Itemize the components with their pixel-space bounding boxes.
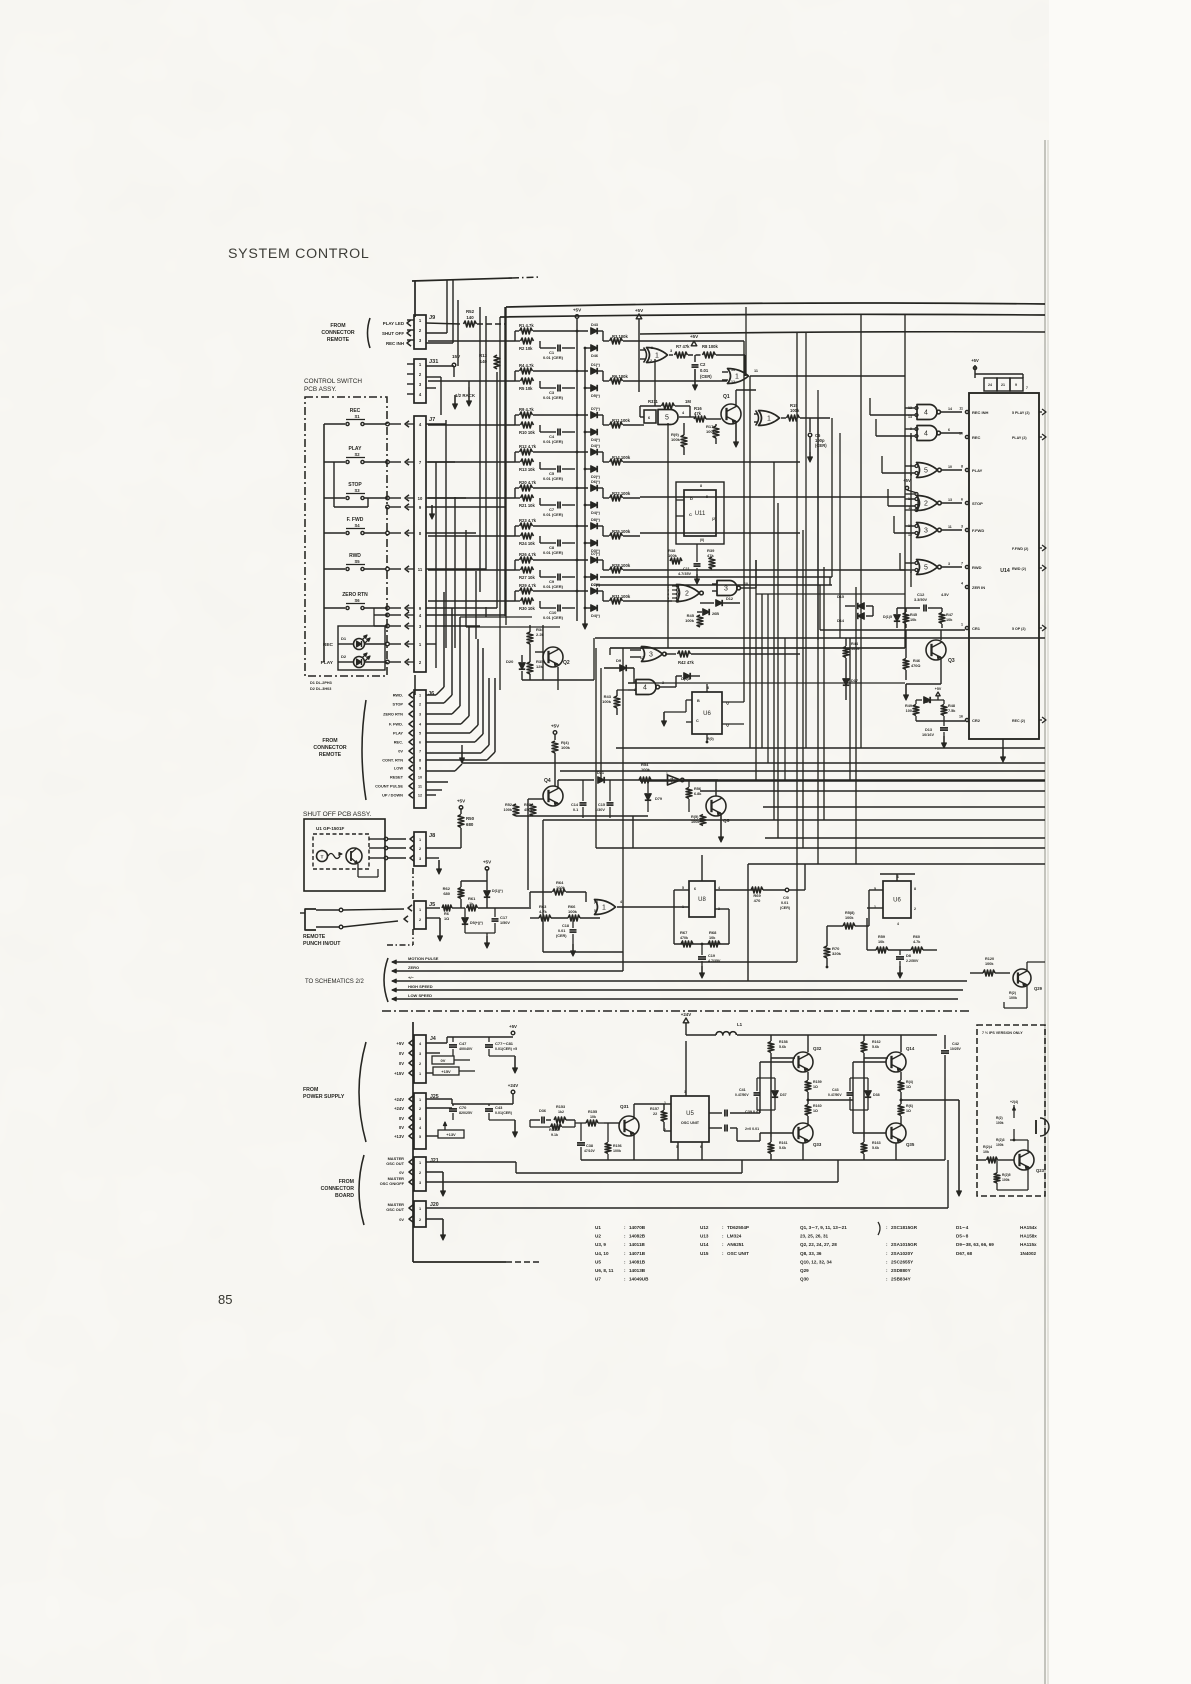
- svg-text:R(2): R(2): [1009, 991, 1017, 995]
- svg-text:ZERO RTN: ZERO RTN: [383, 712, 403, 717]
- svg-text:RESET: RESET: [390, 775, 404, 780]
- svg-text:D12: D12: [726, 597, 733, 601]
- cell right bracket: [602, 526, 604, 536]
- svg-text:C: C: [696, 719, 699, 723]
- arrow J25 down: [514, 1120, 516, 1136]
- svg-text:S2: S2: [354, 452, 360, 457]
- left long verticals mid: [499, 317, 501, 690]
- wire bus vertical: [435, 462, 437, 668]
- svg-text:10: 10: [418, 496, 423, 501]
- J6 lower pin stubs: [426, 781, 448, 783]
- svg-text:14071B: 14071B: [629, 1251, 646, 1256]
- svg-text:CR1: CR1: [972, 626, 981, 631]
- svg-text:1: 1: [655, 353, 659, 360]
- svg-text:23, 25, 26, 31: 23, 25, 26, 31: [800, 1234, 829, 1239]
- bus verticals right: [743, 341, 745, 702]
- svg-text:J7: J7: [429, 417, 435, 423]
- diode D4(*): [591, 605, 597, 611]
- svg-text:D37: D37: [780, 1093, 787, 1097]
- svg-text:1: 1: [735, 374, 739, 381]
- svg-text:10k: 10k: [983, 1150, 989, 1154]
- svg-text:R12 4.7k: R12 4.7k: [519, 444, 537, 449]
- U6 wires: [686, 699, 692, 701]
- svg-text:4.7/35V: 4.7/35V: [678, 572, 692, 576]
- svg-text:D9: D9: [616, 658, 622, 663]
- svg-text:3: 3: [419, 1181, 421, 1185]
- wire bus vertical: [445, 420, 447, 648]
- capacitor C20 0.01(CER): [785, 888, 789, 892]
- svg-text:(CER): (CER): [815, 443, 827, 448]
- gate out wire: [941, 502, 962, 504]
- svg-text:R5(8): R5(8): [845, 911, 855, 915]
- svg-text:D1 DL-2PH3: D1 DL-2PH3: [310, 681, 332, 685]
- U16 top loop: [869, 889, 883, 891]
- svg-text:R5 10k: R5 10k: [519, 386, 533, 391]
- svg-text:Q2, 22, 24, 27, 28: Q2, 22, 24, 27, 28: [800, 1242, 837, 1247]
- svg-text:Q29: Q29: [800, 1268, 809, 1273]
- svg-text:0V: 0V: [399, 1170, 404, 1175]
- svg-text:21: 21: [1001, 383, 1005, 387]
- svg-text:6: 6: [948, 428, 950, 432]
- wire J9 pin1 to R52: [426, 323, 460, 324]
- svg-text:R160: R160: [813, 1104, 822, 1108]
- svg-text:R2 10k: R2 10k: [519, 346, 533, 351]
- svg-text:1: 1: [419, 908, 421, 912]
- J5 net bottoms: [464, 908, 466, 917]
- svg-text:HA158x: HA158x: [1020, 1234, 1037, 1239]
- svg-text:140: 140: [466, 315, 474, 320]
- svg-text:10k: 10k: [910, 618, 917, 622]
- svg-text:R29 4.7k: R29 4.7k: [519, 583, 537, 588]
- pin U14 F.FWD: [965, 528, 968, 531]
- svg-text:6: 6: [694, 887, 696, 891]
- wire bus 864: [748, 863, 1045, 865]
- svg-text:5: 5: [665, 415, 669, 422]
- svg-text:D1: D1: [341, 636, 347, 641]
- svg-text:J31: J31: [429, 359, 438, 365]
- pin U14 STOP: [965, 501, 968, 504]
- diode D8(*): [533, 525, 588, 527]
- gate OR 1b: [728, 369, 749, 384]
- svg-text:100k: 100k: [1002, 1178, 1010, 1182]
- wire J5 pin1 row: [426, 907, 440, 909]
- svg-text:Q2: Q2: [563, 660, 570, 666]
- svg-text:1/2 RACK: 1/2 RACK: [455, 393, 476, 398]
- svg-text:0V: 0V: [399, 1217, 404, 1222]
- svg-text:R(4): R(4): [906, 1080, 914, 1084]
- connector J21: [414, 1157, 426, 1191]
- brace board: [359, 1155, 364, 1225]
- svg-text:2×0 0.01: 2×0 0.01: [745, 1127, 759, 1131]
- wire CR1: [820, 629, 965, 631]
- capacitor C7 0.01(CER): [539, 498, 541, 505]
- svg-text:7.5k: 7.5k: [948, 709, 956, 713]
- svg-text:PCB ASSY.: PCB ASSY.: [304, 386, 337, 393]
- svg-text:(2): (2): [712, 517, 716, 521]
- svg-text:UP / DOWN: UP / DOWN: [382, 793, 403, 798]
- svg-text:LM324: LM324: [727, 1234, 742, 1239]
- capacitor C9 0.01(CER): [539, 570, 541, 577]
- svg-text:1: 1: [419, 1161, 421, 1165]
- pin U14 REC INH: [965, 410, 968, 413]
- switch secondary rail: [333, 462, 335, 507]
- ic U6: [692, 692, 722, 734]
- svg-text:SHUT OFF PCB ASSY.: SHUT OFF PCB ASSY.: [303, 811, 371, 818]
- svg-text:14081B: 14081B: [629, 1259, 646, 1264]
- svg-text:D(1)(*): D(1)(*): [492, 889, 504, 893]
- svg-text:+5V: +5V: [935, 687, 942, 691]
- svg-text:D2 DL-3H03: D2 DL-3H03: [310, 687, 331, 691]
- svg-text:S4: S4: [354, 523, 360, 528]
- svg-text:C41: C41: [739, 1088, 746, 1092]
- svg-text:D9∼38, 63, 66, 69: D9∼38, 63, 66, 69: [956, 1242, 994, 1247]
- svg-text:4: 4: [643, 685, 647, 692]
- svg-text:C: C: [689, 512, 692, 517]
- pp top collector wires: [864, 1057, 888, 1059]
- wire bus vertical: [504, 307, 506, 616]
- J20 wires: [426, 1207, 948, 1209]
- svg-text:1: 1: [666, 772, 668, 776]
- svg-text:10: 10: [948, 465, 952, 469]
- svg-text:R(2)4: R(2)4: [983, 1145, 992, 1149]
- svg-text:U15: U15: [700, 1251, 709, 1256]
- svg-text:S3: S3: [354, 488, 360, 493]
- svg-text:OSC UNIT: OSC UNIT: [727, 1251, 749, 1256]
- pp emitter joins: [895, 1143, 897, 1160]
- wire J9 pin3: [426, 342, 453, 344]
- gate input bubbles: [915, 428, 918, 431]
- svg-text:AN6251: AN6251: [727, 1242, 744, 1247]
- svg-text:0V: 0V: [398, 749, 403, 754]
- svg-text:CONTROL SWITCH: CONTROL SWITCH: [304, 378, 362, 385]
- svg-text:10k: 10k: [946, 618, 953, 622]
- svg-text:0.01 (CER): 0.01 (CER): [543, 615, 564, 620]
- transistor Q35: [886, 1123, 906, 1143]
- svg-text:4: 4: [620, 900, 622, 904]
- J4 wires: [426, 1042, 447, 1044]
- cell left wires: [428, 600, 515, 602]
- svg-text:R49: R49: [905, 704, 912, 708]
- svg-text:2: 2: [419, 918, 421, 922]
- page fold edge: [1044, 140, 1046, 1684]
- svg-text:FROM: FROM: [339, 1179, 354, 1185]
- Q4 out wire: [557, 780, 559, 788]
- svg-text:C43: C43: [495, 1105, 503, 1110]
- svg-text:R(0): R(0): [707, 737, 714, 741]
- ic U11: [684, 490, 716, 536]
- svg-text:D2(*): D2(*): [591, 475, 601, 479]
- opto emitter: [317, 851, 328, 862]
- svg-text:14011B: 14011B: [629, 1242, 646, 1247]
- cell bracket: [515, 370, 519, 372]
- svg-text:0.01(CER) ×5: 0.01(CER) ×5: [495, 1047, 517, 1051]
- arrow 1/2 rack: [468, 381, 470, 387]
- svg-text:C77∼C81: C77∼C81: [495, 1041, 514, 1046]
- U14 right stubs: [1039, 411, 1042, 413]
- svg-text:10k: 10k: [709, 936, 716, 940]
- CR2 wires: [915, 700, 917, 704]
- wire bus vertical: [465, 530, 467, 627]
- wire bus 807: [763, 806, 1045, 808]
- cell right bracket: [602, 560, 604, 570]
- svg-text:0.01 (CER): 0.01 (CER): [543, 584, 564, 589]
- +13V stub: [426, 1135, 438, 1137]
- cell left wires: [428, 497, 515, 499]
- jack contacts: [339, 908, 343, 912]
- svg-text:REC (2): REC (2): [1012, 719, 1026, 723]
- diode D7(*): [533, 414, 588, 416]
- svg-text:D1∼4: D1∼4: [956, 1225, 969, 1230]
- svg-text:CONNECTOR: CONNECTOR: [321, 1186, 355, 1192]
- wire rail 3: [640, 332, 1045, 334]
- gate XOR Q1: [759, 411, 780, 426]
- svg-text:5: 5: [706, 495, 708, 499]
- svg-text:100k: 100k: [641, 767, 651, 772]
- svg-text:14: 14: [948, 407, 952, 411]
- cell bracket: [515, 414, 519, 416]
- svg-text:12: 12: [731, 380, 735, 384]
- svg-text:R67: R67: [680, 930, 688, 935]
- 0V stub: [426, 1052, 440, 1054]
- wire J5 pin2 arrow: [426, 917, 440, 919]
- connector J31: [414, 359, 426, 403]
- svg-text:REC.: REC.: [394, 740, 403, 745]
- svg-text:C2: C2: [700, 362, 706, 367]
- diode D7(*): [533, 590, 588, 592]
- svg-text:R21 10k: R21 10k: [519, 503, 536, 508]
- svg-text:5 PLAY (2): 5 PLAY (2): [1012, 411, 1030, 415]
- wire mid double rails: [600, 576, 832, 578]
- svg-text:R42 47k: R42 47k: [678, 660, 695, 665]
- svg-text:5: 5: [924, 565, 928, 572]
- svg-text:5.6k: 5.6k: [779, 1146, 786, 1150]
- svg-text:FROM: FROM: [303, 1087, 318, 1093]
- J21 osc wire riser: [537, 1172, 742, 1174]
- svg-text:C38: C38: [586, 1144, 593, 1148]
- svg-text:1: 1: [767, 416, 771, 423]
- svg-text:OSC OUT: OSC OUT: [386, 1161, 404, 1166]
- wire riser 458: [457, 300, 459, 366]
- svg-text:0V: 0V: [399, 1116, 404, 1121]
- gate input bubbles: [915, 562, 918, 565]
- svg-text:+5V: +5V: [690, 334, 699, 339]
- svg-text:47/10V: 47/10V: [584, 1149, 595, 1153]
- svg-text:100k: 100k: [668, 553, 678, 558]
- cell left wires: [428, 380, 515, 382]
- arrow C down: [514, 1056, 516, 1072]
- svg-text:U3, 9: U3, 9: [595, 1242, 606, 1247]
- svg-text:1Ω: 1Ω: [906, 1109, 911, 1113]
- svg-text:1: 1: [651, 346, 653, 350]
- svg-text:D79: D79: [655, 797, 662, 801]
- wire bus vertical: [454, 497, 456, 648]
- bus risers: [622, 952, 624, 971]
- svg-text:3: 3: [419, 1052, 421, 1056]
- svg-text:TO SCHEMATICS 2/2: TO SCHEMATICS 2/2: [305, 979, 364, 985]
- opto transistor: [346, 848, 362, 864]
- cell left wires: [428, 461, 515, 463]
- capacitor C11 4.7/35V: [694, 563, 701, 565]
- svg-text:100: 100: [906, 709, 912, 713]
- svg-text:U1: U1: [595, 1225, 601, 1230]
- svg-text:R7 47k: R7 47k: [676, 344, 690, 349]
- svg-text:100k: 100k: [561, 745, 571, 750]
- svg-text:(0): (0): [700, 538, 704, 542]
- svg-text:8: 8: [700, 484, 702, 488]
- svg-text:D4(*): D4(*): [591, 438, 601, 442]
- svg-text:CONNECTOR: CONNECTOR: [313, 745, 347, 751]
- svg-text:R(2): R(2): [996, 1116, 1003, 1120]
- svg-text:10: 10: [418, 776, 422, 780]
- pp emitter joins: [802, 1143, 804, 1160]
- svg-text:100k: 100k: [845, 916, 854, 920]
- svg-text:J21: J21: [430, 1158, 439, 1164]
- page margin right of fold: [1049, 0, 1191, 1684]
- svg-text:C12: C12: [917, 592, 925, 597]
- diode D5(*): [591, 385, 597, 391]
- svg-text:9: 9: [419, 767, 421, 771]
- svg-text:4: 4: [897, 922, 899, 926]
- wire Q1 collector: [735, 390, 737, 406]
- diode D43: [533, 330, 588, 332]
- svg-text:2: 2: [419, 1218, 421, 1222]
- svg-text:S1: S1: [354, 414, 360, 419]
- gate out wire: [941, 411, 962, 413]
- diode D4(*): [533, 451, 588, 453]
- capacitor C47 400/40V: [449, 1044, 457, 1046]
- svg-text:POWER SUPPLY: POWER SUPPLY: [303, 1094, 345, 1100]
- capacitor C10 0.01(CER): [539, 601, 541, 608]
- gate input bubbles: [915, 498, 918, 501]
- connector J9: [414, 315, 426, 349]
- gate out wire: [941, 566, 962, 568]
- wire dash-dot top entry: [412, 278, 512, 281]
- wires Q2: [529, 625, 531, 632]
- svg-text:14070B: 14070B: [629, 1225, 646, 1230]
- svg-text:COUNT PULSE: COUNT PULSE: [375, 784, 403, 789]
- svg-text:100k: 100k: [568, 909, 578, 914]
- svg-text:REC INH: REC INH: [386, 341, 404, 346]
- svg-text:10k: 10k: [590, 1115, 596, 1119]
- svg-text:(2): (2): [594, 900, 598, 904]
- svg-text:J4: J4: [430, 1036, 436, 1042]
- svg-text:320k: 320k: [832, 951, 842, 956]
- arrow inner: [431, 505, 433, 518]
- capacitor C6 100n: [809, 418, 811, 432]
- diode D4(*): [591, 429, 597, 435]
- Q3 wires: [940, 630, 942, 640]
- capacitor C19 4.7/35V: [698, 956, 706, 958]
- svg-text:D5(*): D5(*): [591, 394, 601, 398]
- svg-text:R311: R311: [648, 399, 658, 404]
- svg-text:D43: D43: [591, 323, 598, 327]
- gate input bubbles: [915, 465, 918, 468]
- svg-text:R(2)3: R(2)3: [996, 1138, 1005, 1142]
- svg-text:Q3: Q3: [948, 658, 955, 664]
- svg-text:3: 3: [649, 652, 653, 659]
- cell bracket: [515, 487, 519, 489]
- svg-text:3.3/50V: 3.3/50V: [914, 598, 928, 602]
- svg-text:4: 4: [924, 410, 928, 417]
- svg-text:LOW SPEED: LOW SPEED: [408, 993, 432, 998]
- U14 bottom arrow: [1002, 739, 1004, 748]
- diode D4(*): [591, 502, 597, 508]
- svg-text:1Ω: 1Ω: [813, 1109, 818, 1113]
- cell left wires: [428, 569, 515, 571]
- svg-text:R68: R68: [709, 930, 717, 935]
- svg-text:+24V: +24V: [508, 1083, 518, 1088]
- inverter out net: [680, 779, 718, 781]
- svg-text:1N4002: 1N4002: [1020, 1251, 1037, 1256]
- svg-text:D6(*): D6(*): [591, 480, 601, 484]
- svg-text:3: 3: [670, 349, 672, 353]
- svg-text:PLAY (2): PLAY (2): [1012, 436, 1027, 440]
- svg-text:11: 11: [959, 407, 963, 411]
- svg-text:22: 22: [653, 1112, 657, 1116]
- svg-text:+5V: +5V: [573, 308, 582, 313]
- led box: [338, 626, 385, 670]
- svg-text:+5V: +5V: [509, 1024, 517, 1029]
- svg-text:1: 1: [602, 905, 606, 912]
- gate input bubbles: [915, 525, 918, 528]
- svg-text:10: 10: [959, 432, 963, 436]
- svg-text:1: 1: [961, 623, 963, 627]
- connector J25: [414, 1093, 426, 1149]
- svg-text:D36: D36: [539, 1109, 546, 1113]
- svg-text:13: 13: [731, 368, 735, 372]
- wire long 748: [616, 747, 1045, 749]
- svg-text:1: 1: [419, 1207, 421, 1211]
- svg-text:ZER IN: ZER IN: [972, 585, 985, 590]
- wire Q4 base: [528, 798, 543, 800]
- svg-text:CONNECTOR: CONNECTOR: [321, 330, 355, 336]
- svg-text:1: 1: [682, 905, 684, 909]
- svg-text:12: 12: [418, 794, 422, 798]
- svg-text:Q5: Q5: [723, 818, 730, 824]
- svg-text:D4(*): D4(*): [591, 444, 601, 448]
- control switch box dash-dot: [305, 397, 387, 676]
- svg-text:100k: 100k: [602, 699, 612, 704]
- cell left wires: [428, 424, 515, 426]
- svg-text:R52: R52: [466, 309, 475, 314]
- svg-text:RWD.: RWD.: [393, 693, 403, 698]
- switch common rail: [323, 424, 325, 662]
- svg-text:D4(*): D4(*): [591, 511, 601, 515]
- svg-text:9.1k: 9.1k: [551, 1133, 558, 1137]
- svg-text:820/25V: 820/25V: [459, 1111, 473, 1115]
- ic U16: [883, 881, 911, 918]
- svg-text:+24V: +24V: [394, 1097, 404, 1102]
- svg-text:D8: D8: [906, 954, 911, 958]
- J20 wire riser: [947, 1160, 949, 1208]
- svg-text:14013B: 14013B: [629, 1268, 646, 1273]
- svg-text:CONT. RTN: CONT. RTN: [382, 758, 403, 763]
- svg-text:470Ω: 470Ω: [911, 664, 920, 668]
- svg-text:(CER): (CER): [780, 906, 791, 910]
- svg-text:R6: R6: [444, 912, 449, 916]
- transistor Q32: [793, 1052, 813, 1072]
- svg-text:R(6): R(6): [906, 1104, 914, 1108]
- cell right bracket: [602, 591, 604, 601]
- svg-text:D20: D20: [506, 659, 514, 664]
- svg-text:HA115x: HA115x: [1020, 1242, 1037, 1247]
- capacitor C1 0.01(CER): [539, 341, 541, 348]
- svg-text:0V: 0V: [399, 1125, 404, 1130]
- J25 wires: [426, 1098, 452, 1100]
- svg-text:U7: U7: [595, 1277, 601, 1282]
- svg-text:+/−: +/−: [408, 975, 414, 980]
- svg-text:Q4: Q4: [544, 778, 551, 784]
